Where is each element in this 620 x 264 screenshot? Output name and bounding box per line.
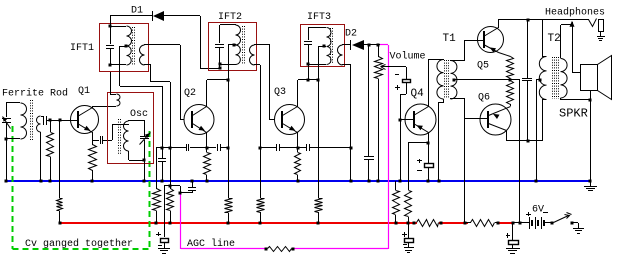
resistor R1 (Q1 base to ground) xyxy=(47,120,54,181)
wire IFT3 primary bottom down xyxy=(308,64,310,80)
node R17 right xyxy=(292,248,295,251)
label SPKR xyxy=(559,107,588,121)
ground symbol below C13 xyxy=(506,249,520,254)
label D2 xyxy=(345,29,357,40)
capacitor C1 (coupling to Q1 base) xyxy=(44,116,47,125)
capacitor C14 (decoupling electrolytic) xyxy=(402,223,414,248)
label Q3 xyxy=(274,87,286,98)
node Q4 base ground tap xyxy=(399,180,402,183)
wire Q4 base divider xyxy=(400,120,402,181)
node Q2 collector to IFT2 feed xyxy=(227,79,230,82)
Q5 collector lead xyxy=(484,20,499,37)
wire D2 output xyxy=(364,44,380,46)
wire IFT3 secondary top to D2 xyxy=(342,44,350,46)
IFT3 primary winding xyxy=(308,28,331,65)
wire T1 secondary bottom to Q6 base xyxy=(450,99,488,224)
svg-text:IFT1: IFT1 xyxy=(70,43,94,54)
node secondary ground xyxy=(40,180,43,183)
T2 core xyxy=(553,57,559,99)
resistor R14 (lower) xyxy=(507,81,514,107)
Q3 emitter lead xyxy=(283,124,298,149)
node AGC junction xyxy=(169,185,172,188)
wire C10 to Q4 base xyxy=(399,94,407,122)
speaker SPKR xyxy=(581,56,612,101)
IFT1 center tap stub xyxy=(120,46,126,48)
node IFT3 primary bottom xyxy=(307,63,310,66)
node C6 ground xyxy=(191,180,194,183)
wire IFT2 secondary bottom xyxy=(254,65,261,149)
resistor R17 (AGC line) xyxy=(268,247,292,252)
IFT1 core xyxy=(133,27,135,65)
resistor R7 (IFT2 feed to V+) xyxy=(225,199,233,224)
capacitor C9 (detector filter) xyxy=(364,45,374,181)
svg-text:Q6: Q6 xyxy=(478,93,490,104)
node T1 center tap xyxy=(453,79,456,82)
svg-text:6V: 6V xyxy=(532,205,544,216)
Q2 collector lead xyxy=(193,80,229,116)
Q2 emitter lead xyxy=(193,124,207,149)
ganged tuning indicator (green dashed) right xyxy=(149,131,151,249)
IFT2 center tap stub xyxy=(228,44,236,46)
wire IFT2 center tap feed xyxy=(228,45,230,198)
wire ground bus (blue) xyxy=(5,180,591,182)
ground symbol bus right end xyxy=(584,181,597,191)
node volume ground xyxy=(377,180,380,183)
wire switch to ground xyxy=(572,223,579,229)
wire T2 secondary bottom to speaker xyxy=(561,98,591,100)
resistor R4 (chain to V+) xyxy=(153,148,161,223)
wire antenna to ground xyxy=(6,139,8,181)
node R17 left xyxy=(265,248,268,251)
IF transformer IFT1 box xyxy=(100,24,149,72)
label D1 xyxy=(131,6,143,17)
node IFT1 secondary return xyxy=(169,147,172,150)
resistor R3 (Q1 emitter) xyxy=(89,140,97,181)
wire battery feed xyxy=(510,80,520,224)
wire speaker hot terminal xyxy=(572,22,580,73)
wire AGC junction left xyxy=(164,186,170,238)
resistor R10 (IFT3 feed to V+) xyxy=(315,199,323,224)
svg-text:Headphones: Headphones xyxy=(545,7,605,19)
node osc ground xyxy=(143,180,146,183)
resistor R2 (Q1 base bias to V+) xyxy=(57,120,63,223)
wire to AGC filter cap xyxy=(180,190,193,193)
transistor Q3 xyxy=(275,105,305,135)
label Volume xyxy=(390,51,426,63)
resistor R5 (Q2 emitter) xyxy=(204,148,211,181)
svg-text:Osc: Osc xyxy=(130,109,148,120)
svg-text:Q2: Q2 xyxy=(184,88,196,99)
node IFT1 primary bottom xyxy=(109,64,112,67)
node battery junction xyxy=(512,222,515,225)
capacitor C4 (chain bypass to ground) xyxy=(158,148,166,181)
label Cv ganged together xyxy=(25,238,133,250)
Q2 emitter chain xyxy=(156,144,230,151)
node IFT3 bottom junction xyxy=(307,79,310,82)
transistor Q6 xyxy=(480,104,511,135)
oscillator coil box xyxy=(108,93,154,164)
capacitor C3 (IFT1 tank) xyxy=(106,26,114,65)
svg-text:Q5: Q5 xyxy=(477,61,489,72)
wire V+ bus (red) segment 3 xyxy=(497,222,514,224)
node Q4 emitter xyxy=(427,142,430,145)
resistor R13 (Q5 emitter upper) xyxy=(507,57,514,79)
ganged tuning indicator (green dashed) bottom xyxy=(13,248,151,250)
wire IFT1 secondary top to Q2 base xyxy=(144,45,184,121)
wire V+ bus (red) segment 1 xyxy=(60,222,417,224)
wire AGC line (magenta) bottom left segment xyxy=(181,248,266,250)
Q1 emitter lead xyxy=(78,124,93,141)
node volume top xyxy=(377,44,380,47)
capacitor C2 (Q1 emitter to osc) xyxy=(92,136,112,144)
resistor R9 (Q3 emitter) xyxy=(295,148,301,181)
label Q5 xyxy=(477,61,489,72)
wire rail to T2 primary xyxy=(542,20,546,57)
svg-text:D1: D1 xyxy=(131,6,143,17)
transistor Q4 xyxy=(405,104,436,135)
potentiometer Volume xyxy=(375,45,383,181)
node battery feed junction xyxy=(519,222,522,225)
node D1 to IFT2 xyxy=(219,67,222,70)
node R15 left xyxy=(413,222,416,225)
svg-text:Q3: Q3 xyxy=(274,87,286,98)
variable capacitor Cv2 (osc tuning) xyxy=(140,120,151,160)
wire chain to ground xyxy=(350,148,352,181)
svg-text:AGC line: AGC line xyxy=(187,238,235,250)
node T1 ground xyxy=(438,180,441,183)
diode D1 xyxy=(153,11,165,21)
capacitor C12 (across output) xyxy=(522,20,532,141)
node C11 ground xyxy=(427,180,430,183)
node Q1 base divider A xyxy=(49,119,52,122)
node chain ground xyxy=(350,180,353,183)
wire IFT3 secondary bottom xyxy=(342,65,351,149)
label IFT3 xyxy=(307,12,331,23)
wire secondary to ground bus xyxy=(40,132,42,181)
wire T1 center tap to bias xyxy=(454,79,510,81)
T2 secondary winding xyxy=(561,59,568,99)
node R8 V+ xyxy=(259,222,262,225)
node Q2 emitter xyxy=(206,147,209,150)
node output junction xyxy=(527,140,530,143)
node chain left junction xyxy=(169,147,172,150)
headphone jack tip arrow xyxy=(570,21,575,27)
ferrite rod secondary coil xyxy=(37,116,45,132)
node IFT2 primary bottom xyxy=(219,63,222,66)
IFT1 secondary winding xyxy=(140,45,145,65)
capacitor C13 (supply filter electrolytic) xyxy=(506,223,519,248)
node R16 left xyxy=(464,222,467,225)
node Q1 base divider B xyxy=(59,119,62,122)
wire D1 right xyxy=(164,16,220,70)
wire AGC line (magenta) top segment xyxy=(380,44,388,46)
wire battery positive xyxy=(513,222,530,224)
node switch pole xyxy=(551,222,554,225)
T1 primary winding xyxy=(437,60,444,100)
osc core xyxy=(119,119,121,155)
resistor R16 (decoupling 2) xyxy=(465,220,497,227)
svg-text:Cv ganged together: Cv ganged together xyxy=(25,238,133,250)
svg-text:Volume: Volume xyxy=(390,51,426,63)
node switch contact xyxy=(571,222,574,225)
Q4 base wire xyxy=(400,119,414,121)
wire V+ bus (red) segment 2 xyxy=(439,222,468,224)
node R15 right xyxy=(440,222,443,225)
wire D1 left xyxy=(110,16,153,27)
wire T2 center tap down xyxy=(536,80,540,182)
label IFT1 xyxy=(70,43,94,54)
node detector output xyxy=(368,44,371,47)
capacitor C6 (AGC filter) xyxy=(188,181,196,191)
node Q3 collector junction xyxy=(317,79,320,82)
node R9 ground xyxy=(297,180,300,183)
label AGC line xyxy=(187,238,235,250)
label Ferrite Rod xyxy=(2,88,68,100)
wire Q1 base chain xyxy=(46,120,78,122)
Q1 collector lead xyxy=(78,106,117,117)
transistor Q2 xyxy=(184,105,214,135)
ground symbol below C5 xyxy=(158,249,170,254)
wire osc to ground xyxy=(144,160,146,181)
IFT1 primary winding xyxy=(110,26,132,65)
headphone jack switch contact xyxy=(589,19,597,27)
resistor R12 (Q4 emitter to V+) xyxy=(405,143,429,224)
IFT3 center tap stub xyxy=(318,46,326,48)
node rail junction xyxy=(527,19,530,22)
osc main winding xyxy=(124,120,145,151)
wire IFT1 secondary bottom xyxy=(144,65,171,187)
T1 secondary winding xyxy=(451,61,457,100)
node R11 V+ xyxy=(395,222,398,225)
Q4 emitter lead xyxy=(414,124,429,144)
variable capacitor Cv1 (tuning) xyxy=(2,103,11,139)
wire AGC line (magenta) right vertical xyxy=(388,45,390,249)
svg-text:Q4: Q4 xyxy=(411,88,425,100)
battery 6V xyxy=(530,217,553,229)
label T2 xyxy=(548,33,561,45)
svg-text:D2: D2 xyxy=(345,29,357,40)
node IFT1 primary top xyxy=(109,25,112,28)
transistor Q5 xyxy=(478,27,504,53)
wire Q6 collector to T2 xyxy=(506,100,546,142)
IFT2 primary winding xyxy=(220,25,241,65)
svg-text:Q1: Q1 xyxy=(78,86,90,97)
svg-text:IFT3: IFT3 xyxy=(307,12,331,23)
node chain right junction xyxy=(350,147,353,150)
IFT3 core xyxy=(331,28,333,64)
svg-text:T2: T2 xyxy=(548,33,561,45)
label Headphones xyxy=(545,7,605,19)
Q4 collector lead xyxy=(414,60,429,116)
label Q1 xyxy=(78,86,90,97)
headphone plug xyxy=(599,20,604,37)
label 6V xyxy=(532,205,544,216)
node R3 ground xyxy=(91,180,94,183)
label Osc xyxy=(130,109,148,120)
volume wiper arrow xyxy=(381,65,407,70)
IF transformer IFT3 box xyxy=(301,25,345,67)
node T2 center tap xyxy=(539,79,542,82)
node R2 V+ xyxy=(59,222,62,225)
wire AGC junction right xyxy=(170,186,181,194)
osc winding bottom wire xyxy=(129,151,145,161)
IFT2 secondary winding xyxy=(250,45,255,65)
osc feedback wire xyxy=(112,124,129,140)
battery polarity labels xyxy=(526,212,548,216)
IFT2 core xyxy=(243,26,245,64)
svg-text:Ferrite Rod: Ferrite Rod xyxy=(2,88,68,100)
T2 primary winding xyxy=(539,57,546,100)
node bias junction xyxy=(509,79,512,82)
Q6 emitter lead xyxy=(489,107,511,120)
svg-text:T1: T1 xyxy=(443,33,457,45)
ground symbol switch xyxy=(573,229,584,234)
capacitor C5 (electrolytic to ground) xyxy=(156,232,169,248)
IFT3 secondary winding xyxy=(338,45,343,65)
Q5 emitter lead xyxy=(484,45,511,57)
ground symbol headphone xyxy=(597,37,605,41)
wire IFT2 secondary top to Q3 base xyxy=(254,45,274,121)
osc tickler winding xyxy=(110,72,120,106)
node osc cold end xyxy=(143,159,146,162)
wire speaker to ground xyxy=(590,100,592,181)
node R7 V+ xyxy=(227,222,230,225)
wire output rail xyxy=(498,19,589,21)
ferrite rod core xyxy=(31,100,33,141)
node R6 V+ xyxy=(169,222,172,225)
node antenna cold end xyxy=(5,138,8,141)
node R4 V+ xyxy=(155,222,158,225)
capacitor C8 (IFT3 tank) xyxy=(304,28,312,64)
node speaker junction xyxy=(589,99,592,102)
capacitor C7 (IFT2 tank) xyxy=(215,25,224,69)
wire T1 secondary top to Q5 base xyxy=(450,40,484,61)
resistor R6 (AGC junction to V+) xyxy=(167,186,174,223)
wire T2 secondary top xyxy=(561,25,573,59)
node IFT1 center tap xyxy=(125,45,128,48)
resistor R8 (Q3 chain to V+) xyxy=(257,148,265,223)
ferrite rod primary coil xyxy=(6,103,27,140)
node R5 ground xyxy=(206,180,209,183)
svg-text:IFT2: IFT2 xyxy=(218,12,242,23)
resistor R15 (decoupling 1) xyxy=(417,220,439,227)
node AGC line start xyxy=(179,192,182,195)
node R16 right xyxy=(497,222,500,225)
label Q2 xyxy=(184,88,196,99)
label IFT2 xyxy=(218,12,242,23)
node R10 V+ xyxy=(317,222,320,225)
node IFT2 center tap xyxy=(233,44,236,47)
wire AGC line (magenta) left vertical xyxy=(180,194,182,249)
ganged tuning indicator (green dashed) left xyxy=(12,126,14,249)
node antenna ground xyxy=(5,180,8,183)
label T1 xyxy=(443,33,457,45)
svg-text:SPKR: SPKR xyxy=(559,107,588,121)
node C4 ground xyxy=(161,180,164,183)
T1 core xyxy=(445,60,449,99)
node speaker ground xyxy=(589,180,592,183)
label Q6 xyxy=(478,93,490,104)
capacitor C11 (Q4 emitter bypass) xyxy=(417,143,434,181)
diode D2 xyxy=(351,40,365,50)
switch SW1 xyxy=(554,213,572,223)
resistor R11 (bias) xyxy=(393,181,400,223)
node T2 tap ground xyxy=(535,180,538,183)
wire Q4 collector to T1 xyxy=(428,59,444,61)
wire AGC line (magenta) bottom right segment xyxy=(293,248,388,250)
node C9 ground xyxy=(368,180,371,183)
Q6 collector lead xyxy=(489,124,507,142)
IF transformer IFT2 box xyxy=(209,23,257,71)
node Q3 emitter xyxy=(297,147,300,150)
wire T1 primary bottom to ground xyxy=(439,99,445,181)
node R1 ground xyxy=(49,180,52,183)
node R12 V+ xyxy=(407,222,410,225)
node IFT3 center tap xyxy=(323,45,326,48)
wire IFT1 center tap feed xyxy=(120,46,163,148)
label Q4 xyxy=(411,88,425,100)
ground symbol below C14 xyxy=(404,248,414,253)
capacitor C10 (electrolytic, coupling to Q4) xyxy=(395,67,411,94)
Q3 emitter chain xyxy=(260,144,351,151)
Q3 collector lead xyxy=(283,80,319,116)
node IFT2 secondary return xyxy=(259,147,262,150)
wire IFT3 feed xyxy=(318,46,320,198)
transistor Q1 xyxy=(71,106,99,134)
